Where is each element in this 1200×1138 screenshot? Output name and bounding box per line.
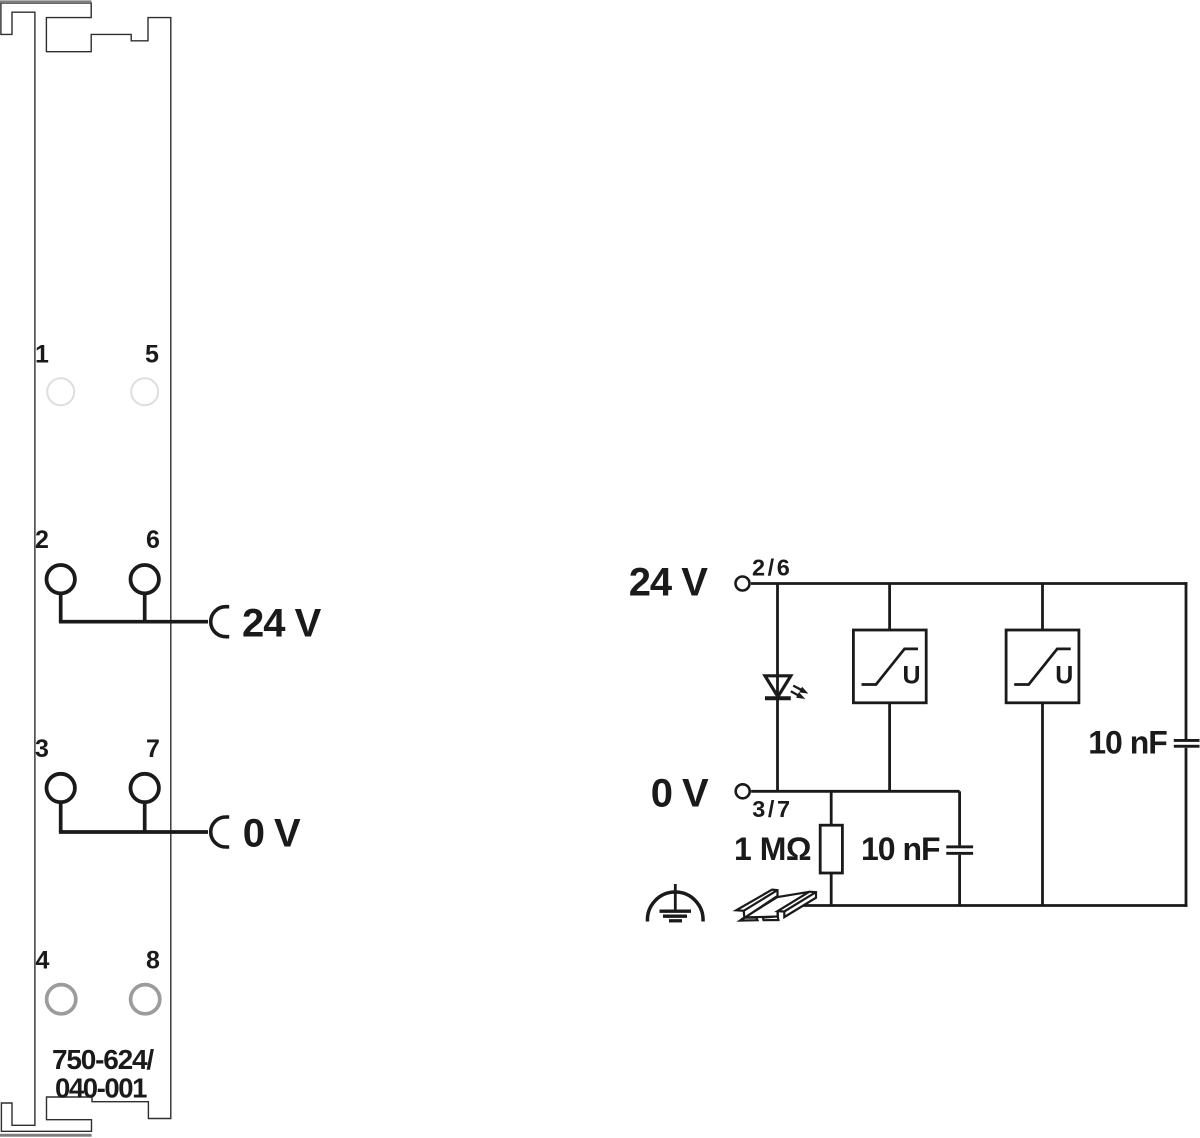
terminal 6 contact [131, 565, 159, 593]
LED branch wire [776, 584, 779, 792]
svg-text:3: 3 [35, 735, 49, 763]
24 V clamp contact symbol [211, 607, 229, 637]
svg-text:10 nF: 10 nF [861, 831, 940, 867]
terminal 3 lead wire [59, 803, 63, 832]
module part number label [52, 1044, 154, 1104]
svg-text:2: 2 [35, 526, 49, 554]
terminal 3 contact [47, 774, 75, 802]
top DIN rail edge [0, 0, 91, 3]
node 2/6 terminal circle [736, 577, 750, 591]
svg-text:750-624/: 750-624/ [52, 1044, 154, 1075]
protective earth symbol [647, 884, 703, 922]
terminal 4 contact [47, 985, 76, 1014]
svg-text:8: 8 [146, 947, 160, 975]
surge filter U1 bottom lead [888, 703, 891, 792]
module 750-624 body outline [1, 3, 171, 1131]
terminal 6 lead wire [143, 594, 147, 622]
bottom DIN rail edge [0, 1134, 92, 1137]
LED D1 [765, 676, 808, 699]
terminal 5 contact [131, 378, 158, 405]
capacitor C1 (10 nF) [946, 845, 973, 854]
24 V rail wire [751, 582, 1188, 585]
surge filter U1 [853, 630, 926, 703]
terminal 8 contact [131, 985, 160, 1014]
svg-text:1 MΩ: 1 MΩ [734, 831, 811, 867]
capacitor C2 (10 nF) [1174, 739, 1200, 748]
capacitor C1 top lead [958, 791, 961, 845]
resistor R1 (1 MOhm) [820, 825, 842, 873]
surge filter U2 top lead [1041, 584, 1044, 631]
0 V clamp contact symbol [211, 817, 229, 847]
0 V rail wire [751, 790, 960, 793]
svg-text:0 V: 0 V [243, 812, 301, 856]
svg-text:2/6: 2/6 [752, 555, 792, 581]
DIN rail (3D) [736, 890, 816, 921]
capacitor C1 bottom lead [958, 855, 961, 906]
svg-text:0 V: 0 V [651, 772, 709, 816]
resistor R1 bottom lead [830, 873, 833, 906]
resistor R1 top lead [830, 791, 833, 825]
0 V supply bus wire [59, 830, 208, 834]
24 V supply bus wire [59, 620, 208, 624]
svg-text:5: 5 [145, 341, 159, 369]
svg-text:6: 6 [146, 526, 160, 554]
svg-text:U: U [1055, 662, 1073, 690]
right branch wire upper [1185, 582, 1188, 739]
node 3/7 terminal circle [736, 784, 750, 798]
right branch wire lower [1185, 748, 1188, 907]
terminal 2 lead wire [59, 594, 63, 622]
surge filter U2 bottom lead [1041, 703, 1044, 906]
svg-text:24 V: 24 V [629, 560, 709, 604]
svg-text:4: 4 [36, 947, 50, 975]
terminal 2 contact [47, 565, 75, 593]
ground bus wire [800, 904, 1187, 907]
svg-text:24 V: 24 V [242, 602, 322, 646]
svg-text:10 nF: 10 nF [1088, 725, 1167, 761]
svg-text:7: 7 [146, 735, 160, 763]
svg-text:1: 1 [35, 341, 49, 369]
terminal 1 contact [47, 378, 74, 405]
terminal 7 contact [131, 774, 159, 802]
svg-text:040-001: 040-001 [55, 1072, 147, 1103]
surge filter U1 top lead [888, 584, 891, 631]
surge filter U2 [1006, 630, 1079, 703]
svg-text:U: U [903, 662, 921, 690]
svg-text:3/7: 3/7 [752, 796, 792, 822]
terminal 7 lead wire [143, 803, 147, 832]
